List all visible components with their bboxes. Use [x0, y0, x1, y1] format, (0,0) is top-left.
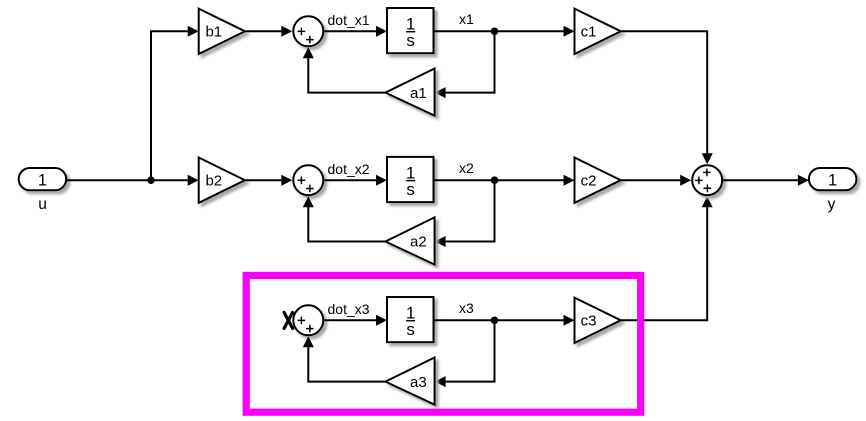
svg-text:y: y — [828, 196, 836, 213]
arrowhead into a1 — [435, 87, 446, 98]
svg-text:x1: x1 — [459, 11, 474, 27]
arrowhead up into right sum — [702, 196, 713, 207]
svg-text:1: 1 — [828, 171, 837, 189]
svg-text:a3: a3 — [410, 374, 427, 391]
arrowhead into integrator2 — [376, 175, 387, 186]
wire sum2 to integrator2 — [324, 179, 376, 181]
wire sum3 to integrator3 — [324, 319, 376, 321]
integrator 1/s (row2) — [387, 157, 434, 202]
svg-text:u: u — [38, 196, 47, 213]
gain a2 — [385, 217, 434, 264]
svg-text:s: s — [406, 180, 415, 199]
svg-text:c2: c2 — [581, 172, 597, 189]
node junction at input branch — [147, 176, 155, 184]
wire b1 to sum1 — [245, 30, 281, 32]
wire from In1 to gain b2 — [66, 179, 187, 181]
svg-text:x3: x3 — [459, 300, 474, 316]
arrowhead into sum1 — [281, 26, 292, 37]
arrowhead into output port — [798, 175, 809, 186]
unconnected input X mark at Sum3 — [284, 312, 293, 328]
wire integrator3 to gain c3 — [435, 319, 564, 321]
wire a1 to sum1 bottom — [308, 58, 385, 93]
wire sum1 to integrator1 — [324, 30, 376, 32]
arrowhead up into sum3 — [303, 336, 314, 347]
svg-text:dot_x1: dot_x1 — [328, 12, 370, 28]
gain b2 — [199, 158, 245, 203]
arrowhead up into sum2 — [303, 196, 314, 207]
svg-text:dot_x3: dot_x3 — [328, 301, 370, 317]
arrowhead into integrator3 — [376, 315, 387, 326]
arrowhead into c1 — [564, 26, 575, 37]
arrowhead up into sum1 — [303, 47, 314, 58]
input port In1 (u) — [19, 168, 66, 190]
arrowhead into c3 — [564, 315, 575, 326]
svg-text:1: 1 — [38, 171, 47, 189]
svg-text:c3: c3 — [581, 313, 597, 330]
svg-text:s: s — [406, 31, 415, 50]
node junction x2 — [491, 176, 499, 184]
wire c2 output to right sum left — [621, 179, 680, 181]
wire b2 to sum2 — [245, 179, 281, 181]
sum block Sum2 — [293, 165, 323, 195]
svg-text:b2: b2 — [205, 172, 222, 189]
svg-text:a1: a1 — [410, 85, 427, 102]
wire a3 to sum3 bottom — [308, 347, 385, 382]
svg-text:dot_x2: dot_x2 — [328, 161, 370, 177]
sum block Sum4 (output sum) — [692, 165, 722, 195]
svg-text:b1: b1 — [205, 24, 222, 41]
wire c3 output to right sum bottom — [621, 207, 707, 320]
sum block Sum3 — [293, 305, 323, 335]
integrator 1/s (row1) — [387, 8, 434, 53]
wire feedback from x2 down to gain a2 — [446, 180, 495, 241]
node junction x3 — [491, 317, 499, 325]
arrowhead into right sum — [680, 175, 691, 186]
svg-text:c1: c1 — [581, 24, 597, 41]
wire Sum4 to output port — [723, 179, 798, 181]
arrowhead down into right sum — [702, 153, 713, 164]
output port Out1 (y) — [809, 168, 857, 190]
arrowhead into c2 — [564, 175, 575, 186]
arrowhead into b2 — [188, 175, 199, 186]
integrator 1/s (row3) — [387, 297, 434, 342]
magenta highlight rectangle — [246, 275, 641, 412]
svg-text:s: s — [406, 320, 415, 339]
wire feedback from x1 down to gain a1 — [446, 31, 495, 92]
arrowhead into sum2 — [281, 175, 292, 186]
gain c3 — [575, 298, 621, 343]
arrowhead into a3 — [435, 376, 446, 387]
node junction x1 — [491, 28, 499, 36]
wire integrator1 to gain c1 — [435, 30, 564, 32]
arrowhead into b1 — [188, 26, 199, 37]
gain c1 — [575, 9, 621, 54]
svg-text:x2: x2 — [459, 160, 474, 176]
arrowhead into a2 — [435, 236, 446, 247]
wire branch up to gain b1 — [151, 31, 188, 180]
wire c1 output to right sum top — [621, 31, 707, 153]
gain a3 — [385, 358, 434, 405]
wire a2 to sum2 bottom — [308, 207, 385, 242]
gain a1 — [385, 69, 434, 116]
wire feedback from x3 down to gain a3 — [446, 320, 495, 381]
sum block Sum1 — [293, 16, 323, 46]
arrowhead into integrator1 — [376, 26, 387, 37]
svg-text:a2: a2 — [410, 234, 427, 251]
wire integrator2 to gain c2 — [435, 179, 564, 181]
gain b1 — [199, 9, 245, 54]
gain c2 — [575, 158, 621, 203]
